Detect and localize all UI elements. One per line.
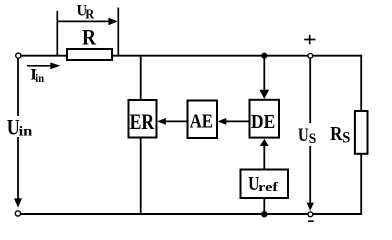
label US xyxy=(296,123,318,147)
label Uin xyxy=(5,115,34,140)
block DE xyxy=(250,100,280,138)
tick right of UR span xyxy=(117,8,119,56)
block Uref xyxy=(241,170,289,199)
arrow AE to ER xyxy=(157,118,188,125)
svg-text:S: S xyxy=(342,130,350,147)
wire right vertical upper xyxy=(360,55,362,112)
resistor RS xyxy=(355,111,368,154)
wire bottom horizontal xyxy=(18,213,362,215)
arrow up from Uref into DE xyxy=(260,139,269,170)
arrow US vertical xyxy=(307,59,314,211)
svg-text:S: S xyxy=(309,131,317,147)
svg-text:in: in xyxy=(19,123,33,138)
wire ER bottom vertical xyxy=(140,138,142,215)
terminal plus xyxy=(308,53,313,58)
wire top horizontal xyxy=(18,55,362,57)
svg-text:ref: ref xyxy=(258,180,279,194)
block ER xyxy=(129,100,157,138)
label plus xyxy=(304,35,315,44)
terminal minus xyxy=(308,212,313,217)
label UR xyxy=(77,2,96,21)
resistor R xyxy=(67,49,112,60)
svg-text:DE: DE xyxy=(251,111,275,133)
label RS xyxy=(330,124,350,147)
svg-text:AE: AE xyxy=(190,110,213,132)
arrow DE to AE xyxy=(218,118,250,125)
arrow UR xyxy=(57,18,117,26)
arrow down into DE xyxy=(260,56,270,99)
svg-text:R: R xyxy=(82,24,97,49)
svg-text:R: R xyxy=(85,6,95,21)
label Iin xyxy=(30,67,44,85)
terminal bottom-left xyxy=(15,211,20,216)
tick left of UR span xyxy=(56,11,58,55)
block AE xyxy=(188,101,218,139)
junction dot bottom xyxy=(261,211,267,217)
junction dot top xyxy=(261,53,267,59)
wire right vertical lower xyxy=(360,154,362,215)
svg-text:ER: ER xyxy=(130,109,155,134)
terminal top-left xyxy=(16,53,21,58)
svg-text:in: in xyxy=(35,71,44,85)
arrow Iin xyxy=(27,62,60,69)
wire ER top vertical xyxy=(140,56,142,100)
svg-text:U: U xyxy=(298,125,309,146)
wire/arrow Uin vertical xyxy=(14,56,22,208)
wire Uref bottom xyxy=(263,198,265,214)
label minus xyxy=(308,220,314,222)
